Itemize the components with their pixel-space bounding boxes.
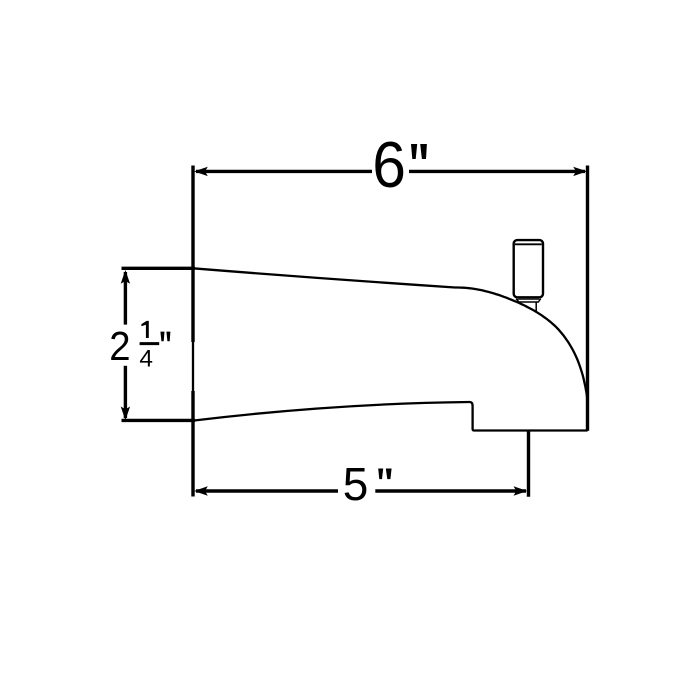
svg-text:2: 2 bbox=[109, 323, 130, 369]
svg-text:5: 5 bbox=[343, 458, 369, 510]
svg-text:6: 6 bbox=[372, 128, 406, 201]
svg-text:4: 4 bbox=[139, 346, 153, 373]
